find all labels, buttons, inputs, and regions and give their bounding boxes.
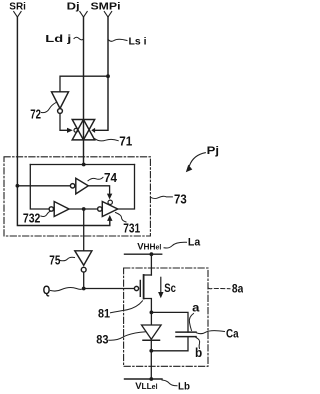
leader squiggle Q to node <box>51 287 84 291</box>
wire inverter72 input from SMPi <box>60 76 108 92</box>
transistor 81 gate bar <box>139 281 141 297</box>
leader dashes 8a <box>208 287 230 290</box>
svg-text:Q: Q <box>43 283 51 297</box>
arrowhead Sc <box>158 292 163 298</box>
junction dot drain node <box>150 311 154 315</box>
junction dot on SRi line <box>16 184 20 188</box>
transistor 81 gate bubble <box>134 286 138 290</box>
wire SMPi vertical down then left into gate 71 right control <box>95 17 108 130</box>
leader squiggle a <box>189 314 193 331</box>
wire inverter74 output to 731 top enable <box>88 186 109 194</box>
svg-text:Dj: Dj <box>67 1 80 12</box>
leader squiggle Lb <box>162 380 177 386</box>
junction dot on VHH rail <box>150 252 154 256</box>
svg-text:a: a <box>192 301 200 315</box>
wire diode cathode down <box>150 340 152 351</box>
junction dot latch output node <box>82 207 86 211</box>
node Dj arrowhead <box>80 12 87 18</box>
svg-text:72: 72 <box>30 106 41 121</box>
junction dot on SMPi line <box>106 74 110 78</box>
inverter 72 output bubble <box>58 109 63 114</box>
svg-text:VHHel: VHHel <box>137 242 161 253</box>
transistor 81 drain lead <box>144 299 152 313</box>
svg-text:SMPi: SMPi <box>91 1 121 12</box>
svg-text:Pj: Pj <box>207 145 219 157</box>
arrowhead of Pj arrow <box>186 165 193 173</box>
arrowhead down into 731 top bubble <box>107 194 112 200</box>
leader squiggle 75 <box>61 257 75 261</box>
svg-text:Ca: Ca <box>226 326 239 340</box>
capacitor Ca top plate <box>176 331 196 333</box>
svg-text:732: 732 <box>23 212 41 226</box>
transistor 81 source lead <box>144 274 152 276</box>
capacitor Ca bottom plate <box>176 336 196 338</box>
leader squiggle Ldj to Dj line <box>74 37 84 40</box>
svg-text:b: b <box>195 346 203 360</box>
leader squiggle 71 <box>95 139 119 141</box>
latch right wire from 731 output up <box>118 165 135 210</box>
wire drain node to capacitor top <box>151 312 188 332</box>
block 8a dash-dot box <box>124 268 208 366</box>
arrowhead into gate71 left <box>67 128 73 133</box>
gate71 left control bubble <box>74 128 78 132</box>
leader squiggle La <box>164 242 187 248</box>
svg-text:74: 74 <box>104 171 117 185</box>
inverter 74 triangle <box>76 178 89 194</box>
svg-text:Ls i: Ls i <box>129 35 147 47</box>
junction dot node Q <box>82 287 86 291</box>
diode 83 triangle <box>142 325 162 339</box>
leader squiggle 74 <box>88 177 103 181</box>
inverter 72 triangle <box>52 92 69 109</box>
diode 83 cathode bar <box>143 339 160 341</box>
wire bottom node to VLL rail <box>150 351 152 379</box>
leader squiggle b <box>196 338 200 349</box>
arrowhead into gate71 right <box>91 128 95 133</box>
wire inverter72 output to gate 71 left control <box>60 113 67 130</box>
transmission gate 71 <box>72 120 95 140</box>
svg-text:Sc: Sc <box>164 281 176 295</box>
latch top feedback wire <box>30 164 134 166</box>
transistor 81 channel bar <box>143 275 145 299</box>
inverter 75 output bubble <box>81 267 86 272</box>
svg-text:La: La <box>188 237 201 249</box>
rail VLLel <box>125 378 163 380</box>
wire SRi tap to inverter74 input <box>17 185 70 187</box>
clocked inverter 731 triangle <box>102 202 117 217</box>
latch left wire down to inverter 732 input <box>30 165 49 210</box>
svg-text:Lb: Lb <box>178 381 190 393</box>
svg-text:75: 75 <box>49 254 60 268</box>
inverter 74 input bubble <box>70 184 74 188</box>
junction dot bottom node <box>149 349 153 353</box>
wire inverter 75 output to node Q <box>83 272 85 288</box>
arrow Pj pointing to block <box>190 153 206 166</box>
leader squiggle 72 <box>42 103 57 113</box>
leader squiggle 732 <box>41 211 51 217</box>
wire SRi vertical trunk down to latch bottom <box>17 17 109 226</box>
leader squiggle 83 <box>109 332 146 341</box>
svg-text:Ld j: Ld j <box>45 33 71 45</box>
svg-text:83: 83 <box>96 333 109 347</box>
wire node Q to transistor 81 gate <box>84 288 135 290</box>
leader squiggle Lsi to SMPi line <box>108 39 127 41</box>
block 73 dash-dot box <box>4 157 150 236</box>
wire drain node to diode anode <box>150 312 152 324</box>
svg-text:81: 81 <box>98 309 111 321</box>
leader squiggle 81 <box>111 301 143 313</box>
wire 732 output to 731 input <box>69 208 98 210</box>
clocked inverter 731 input bubble <box>98 207 102 211</box>
junction dot Dj into latch <box>82 163 86 167</box>
svg-text:SRi: SRi <box>9 1 26 12</box>
svg-text:73: 73 <box>174 192 187 207</box>
inverter 732 input bubble <box>49 207 53 211</box>
current arrow Sc <box>160 277 162 292</box>
node SRi arrowhead <box>14 12 21 18</box>
rail VHHel <box>125 253 162 255</box>
leader squiggle Ca <box>197 331 225 334</box>
wire latch node down to inverter 75 <box>83 209 85 251</box>
wire VHH rail to transistor source <box>150 254 152 275</box>
arrowhead up into 731 bottom <box>107 215 112 221</box>
inverter 75 triangle <box>75 251 92 265</box>
wire Dj vertical through transmission gate to latch <box>83 17 85 165</box>
svg-text:71: 71 <box>119 133 132 148</box>
leader squiggle 73 <box>150 196 172 198</box>
inverter 732 triangle <box>54 202 69 217</box>
node SMPi arrowhead <box>104 12 111 18</box>
svg-text:8a: 8a <box>232 281 243 295</box>
svg-text:731: 731 <box>123 221 140 236</box>
svg-text:VLLel: VLLel <box>135 381 157 392</box>
731 top enable bubble <box>108 200 112 204</box>
capacitor bottom lead <box>151 337 188 351</box>
junction dot on VLL rail <box>149 377 153 381</box>
leader squiggle 731 <box>116 213 127 223</box>
